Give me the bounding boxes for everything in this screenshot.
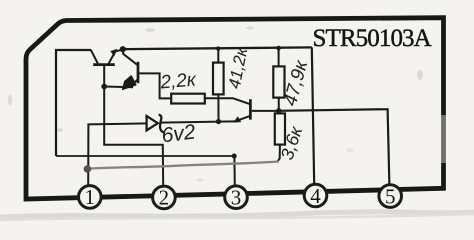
node: Q1 base / Q2 emitter junction: [101, 84, 107, 90]
node: R2 bottom on emitter rail: [216, 119, 221, 124]
label R3 value 47,9к: [280, 57, 312, 108]
wire: R3 top lead: [278, 48, 280, 66]
pin 2: [153, 186, 176, 210]
label R4 value 3,6к: [277, 123, 307, 162]
wire: Q2 emitter to Q1 base: [104, 86, 133, 89]
wire: Q1 base lead down, to pin2: [104, 66, 163, 187]
svg-text:2,2к: 2,2к: [159, 69, 198, 93]
resistor R1 2.2K: [171, 94, 205, 104]
svg-text:STR50103A: STR50103A: [313, 25, 432, 52]
wire: pin4 drop from top rail: [312, 47, 314, 185]
package outline: [26, 18, 448, 199]
wire: top rail y48: [123, 47, 312, 49]
resistor R4 3.6K: [275, 113, 285, 144]
wire: Q2 base to R1: [139, 73, 171, 98]
label D1 value 6v2: [160, 120, 197, 147]
node: top rail / R2: [216, 46, 220, 50]
svg-text:2: 2: [159, 186, 170, 210]
wire: R3 bottom lead: [278, 98, 280, 111]
wire: Q3 emitter rail to zener cathode: [160, 121, 234, 122]
zener diode D1: [147, 115, 164, 133]
wire: pin3 drop: [233, 156, 235, 187]
svg-text:5: 5: [385, 184, 396, 208]
svg-text:1: 1: [85, 185, 96, 209]
wire: horizontal run y156 to pin3: [56, 155, 234, 157]
wire: zener anode line and pin1 riser: [88, 123, 147, 186]
wire: Q3 base lead: [252, 110, 279, 112]
pin 5: [379, 184, 402, 208]
transistor Q3: [233, 99, 250, 122]
label R2 value 41,2к: [225, 45, 252, 90]
node: top rail / R3: [276, 46, 281, 51]
wire: hand-drawn ground run pin1 to R4 bottom: [86, 162, 279, 169]
wire: R4 bottom lead: [278, 145, 280, 162]
pin 1: [79, 185, 102, 209]
resistor R2 41.2K: [213, 63, 224, 95]
transistor Q1: [91, 49, 123, 65]
IC label STR50103A: [313, 25, 432, 52]
node: top rail junction at Q1/Q2: [120, 46, 126, 52]
transistor Q2: [123, 49, 138, 89]
svg-text:6v2: 6v2: [160, 120, 197, 147]
wire: R2 top lead: [217, 49, 219, 63]
wire: R1 to Q3 collector: [205, 98, 250, 104]
node: R3/R4/Q3 base junction: [276, 108, 281, 113]
pin 4: [304, 184, 327, 208]
resistor R3 47.9K: [273, 66, 284, 97]
label R1 value 2,2к: [159, 69, 198, 93]
svg-text:4: 4: [310, 184, 321, 208]
svg-text:3: 3: [231, 186, 242, 210]
pin 3: [225, 186, 248, 210]
wire: pin3 net riser and top-left run: [56, 50, 91, 156]
wire: mid rail y110 to pin5 corner: [279, 109, 390, 185]
node: smudge blob at pin1 riser: [84, 165, 92, 173]
node: dot at y156/pin3: [232, 154, 237, 159]
wire: R2 bottom lead: [217, 94, 219, 121]
